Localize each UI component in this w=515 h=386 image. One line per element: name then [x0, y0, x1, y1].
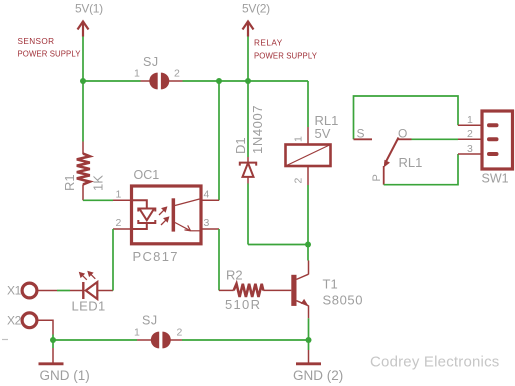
- node junction at 5V(1): [80, 78, 86, 84]
- node junction emitter/GND2: [306, 337, 312, 343]
- wire X1 stub: [37, 290, 57, 292]
- svg-text:SJ: SJ: [142, 314, 158, 328]
- svg-text:2: 2: [177, 327, 183, 339]
- svg-text:POWER SUPPLY: POWER SUPPLY: [18, 50, 82, 59]
- wire relay pin2 to junction: [307, 185, 309, 245]
- svg-text:R1: R1: [62, 174, 77, 191]
- svg-text:X2: X2: [7, 314, 22, 328]
- solder jumper SJ (top): [149, 73, 169, 90]
- LED1 light arrows: [80, 272, 96, 280]
- relay contact S terminal: [354, 138, 373, 140]
- relay RL1 coil: [307, 127, 309, 144]
- svg-text:GND (2): GND (2): [293, 368, 343, 383]
- connector SW1: [482, 111, 513, 169]
- wire bottom rail right: [182, 339, 309, 341]
- wire collector: [307, 245, 309, 261]
- svg-text:1: 1: [467, 114, 473, 126]
- connector X2: [22, 313, 37, 328]
- svg-text:LED1: LED1: [72, 299, 106, 314]
- OC1 pin 4 stub: [201, 199, 219, 201]
- wire D1 bottom: [247, 184, 249, 245]
- wire main top rail right: [183, 80, 309, 82]
- svg-text:SW1: SW1: [482, 172, 509, 186]
- svg-text:1K: 1K: [91, 175, 106, 191]
- wire bottom rail left: [53, 339, 137, 341]
- svg-text:2: 2: [116, 217, 122, 229]
- svg-text:510R: 510R: [225, 297, 261, 312]
- wire R1 top: [82, 81, 84, 142]
- svg-text:1: 1: [116, 188, 122, 200]
- svg-text:O: O: [398, 127, 407, 141]
- svg-text:D1: D1: [233, 137, 248, 154]
- wire D1 to relay/collector: [248, 244, 308, 246]
- wire emitter down: [308, 318, 310, 340]
- svg-text:1N4007: 1N4007: [250, 105, 265, 154]
- svg-text:2: 2: [174, 68, 180, 80]
- svg-text:T1: T1: [323, 277, 338, 292]
- connector X1: [22, 283, 37, 298]
- SW1 pin 3 stub: [458, 153, 482, 155]
- wire D1 top: [247, 81, 249, 157]
- OC1 light arrows: [159, 207, 169, 225]
- ground GND(2): [308, 350, 310, 363]
- OC1 internal LED: [133, 200, 155, 229]
- power 5V(2) arrow: [243, 21, 254, 37]
- wire relay pin1: [307, 81, 309, 127]
- SW1 contact marks: [487, 123, 499, 156]
- svg-text:POWER SUPPLY: POWER SUPPLY: [254, 52, 318, 61]
- svg-text:1: 1: [293, 136, 305, 142]
- svg-text:X1: X1: [7, 284, 22, 298]
- transistor T1: [291, 275, 296, 306]
- power 5V(1) arrow: [78, 21, 89, 37]
- wire X2 stub: [37, 320, 53, 334]
- SW1 pin 2 stub: [458, 138, 482, 140]
- wire junction to GND1: [52, 340, 54, 348]
- diode D1: [240, 157, 256, 184]
- svg-text:RELAY: RELAY: [254, 39, 283, 48]
- SW1 pin 1 stub: [458, 124, 482, 126]
- svg-text:1: 1: [134, 327, 140, 339]
- wire X1 to LED1: [57, 290, 70, 292]
- wire LED1 to OC1 pin2: [112, 229, 114, 291]
- op-to-coupler OC1 box: [132, 186, 202, 244]
- wire OC1 pin3 down to R2: [218, 229, 220, 290]
- node junction at OC1 pin4 riser: [216, 78, 222, 84]
- OC1 pin 2 stub: [113, 228, 132, 230]
- svg-text:1: 1: [134, 68, 140, 80]
- resistor R2: [219, 289, 234, 291]
- wire 5V(1) stem: [82, 37, 84, 82]
- node junction collector: [305, 242, 311, 248]
- node junction X2/GND1: [50, 337, 56, 343]
- wire main top rail left: [83, 80, 141, 82]
- svg-text:5V(1): 5V(1): [75, 2, 103, 16]
- wire junction to GND2: [308, 340, 310, 350]
- svg-text:5V(2): 5V(2): [242, 2, 270, 16]
- wire riser to OC1 pin 4: [218, 81, 220, 200]
- wire X2 to bottom rail: [52, 335, 54, 341]
- svg-text:SENSOR: SENSOR: [18, 37, 55, 46]
- wire P to SW1 pin3: [384, 154, 458, 185]
- stray mark: [2, 339, 8, 341]
- wire O to SW1 pin2: [412, 138, 459, 140]
- relay contact arm: [385, 138, 399, 164]
- relay contact S wire: [354, 96, 459, 139]
- svg-text:3: 3: [467, 143, 473, 155]
- wire R1 bottom to OC1 pin1: [83, 199, 113, 201]
- svg-text:S8050: S8050: [323, 293, 364, 308]
- svg-text:Codrey Electronics: Codrey Electronics: [370, 354, 499, 371]
- solder jumper SJ (bottom): [151, 332, 171, 349]
- resistor R1: [82, 142, 84, 155]
- svg-text:GND (1): GND (1): [40, 368, 90, 383]
- svg-text:2: 2: [467, 128, 473, 140]
- relay contact O terminal: [397, 138, 412, 140]
- svg-text:2: 2: [293, 178, 305, 184]
- svg-text:OC1: OC1: [134, 168, 160, 182]
- svg-text:S: S: [357, 127, 365, 141]
- relay contact pole P: [383, 166, 385, 185]
- wire 5V(2) stem to rail: [247, 37, 249, 82]
- OC1 pin 1 stub: [113, 199, 132, 201]
- OC1 phototransistor: [172, 198, 176, 231]
- svg-text:3: 3: [204, 217, 210, 229]
- node junction at 5V(2): [245, 78, 251, 84]
- svg-text:4: 4: [204, 188, 210, 200]
- svg-text:5V: 5V: [315, 126, 331, 141]
- ground GND(1): [52, 348, 54, 363]
- OC1 pin 3 stub: [201, 228, 219, 230]
- svg-text:SJ: SJ: [143, 55, 159, 69]
- svg-text:P: P: [371, 174, 383, 181]
- svg-text:RL1: RL1: [399, 155, 423, 170]
- LED LED1: [70, 290, 83, 292]
- svg-text:R2: R2: [226, 268, 243, 283]
- svg-text:PC817: PC817: [133, 249, 179, 264]
